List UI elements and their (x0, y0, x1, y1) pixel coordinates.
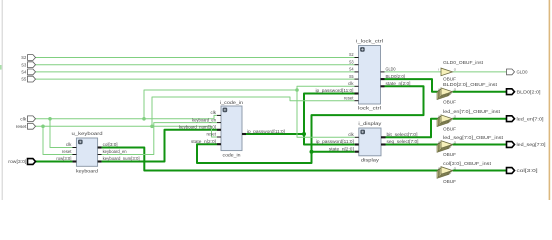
node reset junction B (150, 125, 154, 129)
svg-text:S5: S5 (21, 77, 26, 82)
pin lock_ctrl.S3 stub (355, 64, 359, 66)
svg-text:row[3:0]: row[3:0] (56, 156, 71, 161)
buffer col_OBUF_inst (437, 166, 457, 178)
pin label code_in.keyboard_num[3:0] (179, 125, 216, 130)
svg-text:S3: S3 (21, 62, 26, 67)
wire keyboard_en keyboard->code_in (102, 123, 217, 155)
svg-text:reset: reset (344, 95, 354, 100)
svg-text:S2: S2 (349, 52, 354, 57)
buffer GLD0 OBUF name (443, 76, 456, 81)
pin lock_ctrl.state_n stub (381, 85, 385, 87)
module i_display name (361, 158, 380, 163)
wire col[3:0] OBUF->port (453, 170, 507, 172)
svg-text:BLD0[2:0]: BLD0[2:0] (386, 74, 406, 79)
buffer led_seg OBUF name (443, 152, 456, 157)
wire S3 port->lock_ctrl (36, 64, 355, 66)
pin label code_in.reset (207, 132, 217, 137)
node ip_password junction (302, 132, 306, 136)
pin lock_ctrl.S2 stub (355, 57, 359, 59)
pin code_in.keyboard_num stub (217, 129, 221, 131)
pin label lock_ctrl.reset (344, 95, 354, 100)
svg-text:GLD0_OBUF_inst: GLD0_OBUF_inst (443, 60, 484, 65)
module u_keyboard title (72, 131, 103, 136)
wire keyboard_num[3:0] keyboard->code_in (102, 130, 217, 162)
wire led_en[7:0] display->OBUF (386, 119, 442, 138)
buffer GLD0_OBUF_inst (438, 68, 457, 76)
node clk junction C (295, 88, 299, 92)
pin label lock_ctrl.BLD0[2:0] (386, 74, 406, 79)
pin keyboard.keyboard_num[3:0] stub (98, 160, 102, 162)
pin code_in.keyboard_en stub (217, 122, 221, 124)
wire clk branch riser->lock_ctrl/display (144, 90, 297, 119)
svg-text:keyboard_num[3:0]: keyboard_num[3:0] (179, 125, 216, 130)
wire S2 port->lock_ctrl (36, 57, 355, 59)
module u_keyboard name (76, 168, 98, 173)
svg-text:col[3:0]: col[3:0] (103, 142, 118, 147)
buffer BLD0 OBUF name (443, 100, 456, 105)
svg-text:led_seg[7:0]_OBUF_inst: led_seg[7:0]_OBUF_inst (443, 135, 504, 140)
svg-text:ip_password[11:0]: ip_password[11:0] (247, 129, 285, 134)
wire state_n[2:0] lock_ctrl->display/code_in (197, 86, 424, 163)
pin label lock_ctrl.S3 (349, 59, 354, 64)
pin keyboard.col[3:0] stub (98, 146, 102, 148)
buffer led_seg_OBUF_inst (437, 140, 457, 152)
node reset junction A (41, 125, 45, 129)
port S3 (21, 62, 35, 68)
pin keyboard.keyboard_en stub (98, 154, 102, 156)
port S4 (21, 69, 35, 75)
sheet right border (548, 0, 550, 200)
svg-text:clk: clk (348, 81, 354, 86)
svg-text:u_keyboard: u_keyboard (72, 131, 103, 136)
svg-text:keyboard_en: keyboard_en (103, 149, 128, 154)
port GLD0 (507, 69, 528, 75)
buffer led_en_OBUF_inst label (443, 109, 501, 114)
wire ip_password[11:0] junction->lock_ctrl (304, 94, 355, 135)
pin keyboard.row[3:0] stub (72, 160, 76, 162)
pin lock_ctrl.GLD0 stub (381, 71, 385, 73)
pin lock_ctrl.ip_password stub (355, 92, 359, 94)
wire led_en[7:0] OBUF->port (453, 118, 507, 120)
pin display.seg_select stub (381, 143, 386, 145)
svg-text:col[3:0]: col[3:0] (517, 168, 538, 173)
wire clk ->display (297, 90, 355, 137)
wire ip_password[11:0] junction->display (304, 134, 355, 145)
module i_code_in name (223, 153, 241, 158)
module i_display body (359, 128, 381, 156)
svg-text:OBUF: OBUF (443, 152, 456, 157)
pin display.ip_password stub (355, 143, 359, 145)
wire state_n[2:0] branch->display (312, 151, 355, 153)
pin lock_ctrl.BLD0 stub (381, 78, 385, 80)
pin label lock_ctrl.state_n[2:0] (386, 81, 411, 86)
wire clk main (36, 115, 218, 118)
svg-text:reset: reset (16, 124, 27, 129)
buffer BLD0_OBUF_inst (437, 88, 457, 100)
svg-text:lock_ctrl: lock_ctrl (358, 106, 381, 111)
port reset (16, 123, 36, 129)
pin code_in.state_n stub (217, 143, 221, 145)
port row[3:0] (8, 159, 35, 165)
svg-text:i_lock_ctrl: i_lock_ctrl (356, 39, 383, 44)
module u_keyboard body (76, 138, 97, 166)
wire BLD0[2:0] lock_ctrl->OBUF (385, 79, 442, 92)
svg-text:clk: clk (20, 116, 27, 121)
sheet left border (1, 0, 3, 200)
svg-text:i_code_in: i_code_in (220, 100, 243, 105)
svg-text:ip_password[11:0]: ip_password[11:0] (316, 88, 354, 93)
pin lock_ctrl.S4 stub (355, 71, 359, 73)
pin label lock_ctrl.ip_password[11:0] (316, 88, 354, 93)
pin label display.seg_select[7:0] (387, 139, 419, 144)
pin label keyboard.clk (66, 142, 72, 147)
wire ip_password[11:0] code_in->junction (246, 133, 304, 135)
wire clk branch->keyboard (50, 119, 72, 148)
wire BLD0[2:0] OBUF->port (453, 91, 507, 93)
svg-text:clk: clk (348, 132, 354, 137)
port S5 (21, 76, 35, 82)
pin label display.state_n[2:0] (329, 146, 354, 151)
wire led_seg[7:0] OBUF->port (453, 144, 507, 146)
pin display.bit_select stub (381, 136, 386, 138)
buffer GLD0_OBUF_inst label (443, 60, 484, 65)
svg-text:S4: S4 (349, 67, 354, 72)
pin display.state_n stub (355, 151, 359, 153)
svg-text:reset: reset (62, 149, 72, 154)
pin label lock_ctrl.S2 (349, 52, 354, 57)
svg-text:led_en[7:0]_OBUF_inst: led_en[7:0]_OBUF_inst (443, 109, 501, 114)
buffer led_en_OBUF_inst (437, 115, 457, 127)
wire clk ->lock_ctrl (297, 86, 355, 90)
module i_code_in title (220, 100, 243, 105)
buffer col_OBUF_inst label (443, 161, 492, 166)
svg-text:OBUF: OBUF (443, 76, 456, 81)
svg-text:code_in: code_in (223, 153, 241, 158)
module i_code_in body (221, 106, 242, 151)
wire led_seg[7:0] display->OBUF (386, 144, 442, 146)
svg-text:bit_select[7:0]: bit_select[7:0] (387, 132, 418, 137)
pin lock_ctrl.clk stub (355, 85, 359, 87)
module i_display title (358, 121, 382, 126)
svg-text:led_en[7:0]: led_en[7:0] (517, 116, 544, 121)
port S2 (21, 55, 35, 61)
svg-text:state_n[2:0]: state_n[2:0] (191, 139, 216, 144)
pin code_in.ip_password stub (242, 133, 246, 135)
port BLD0[2:0] (507, 89, 541, 95)
pin label keyboard.keyboard_num[3:0] (103, 156, 140, 161)
wire GLD0 lock_ctrl->OBUF (385, 71, 442, 73)
svg-text:GLD0: GLD0 (386, 67, 396, 72)
buffer BLD0_OBUF_inst label (443, 82, 498, 87)
svg-text:BLD0[2:0]_OBUF_inst: BLD0[2:0]_OBUF_inst (443, 82, 498, 87)
pin code_in.reset stub (217, 136, 221, 138)
pin label lock_ctrl.S4 (349, 67, 354, 72)
pin keyboard.clk stub (72, 147, 76, 149)
svg-text:keyboard_num[3:0]: keyboard_num[3:0] (103, 156, 140, 161)
port led_seg[7:0] (507, 142, 546, 148)
svg-text:seg_select[7:0]: seg_select[7:0] (387, 139, 419, 144)
svg-text:OBUF: OBUF (443, 126, 456, 131)
svg-text:i_display: i_display (358, 121, 382, 126)
node clk junction A (48, 117, 52, 121)
svg-text:col[3:0]_OBUF_inst: col[3:0]_OBUF_inst (443, 161, 492, 166)
pin label code_in.keyboard_en (192, 117, 217, 122)
pin label display.bit_select[7:0] (387, 132, 418, 137)
pin label lock_ctrl.GLD0 (386, 67, 396, 72)
svg-text:S3: S3 (349, 59, 354, 64)
pin label keyboard.row[3:0] (56, 156, 71, 161)
svg-text:clk: clk (211, 110, 217, 115)
svg-text:BLD0[2:0]: BLD0[2:0] (517, 89, 541, 94)
wire row[3:0] port->keyboard (36, 161, 73, 163)
pin label lock_ctrl.S5 (349, 74, 354, 79)
wire reset branch->keyboard (43, 126, 72, 154)
pin label keyboard.keyboard_en (103, 149, 128, 154)
port clk (20, 116, 35, 122)
svg-text:keyboard_en: keyboard_en (192, 117, 217, 122)
pin label lock_ctrl.clk (348, 81, 354, 86)
node clk junction B (142, 117, 146, 121)
pin lock_ctrl.S5 stub (355, 78, 359, 80)
pin label code_in.clk (211, 110, 217, 115)
module i_lock_ctrl title (356, 39, 383, 44)
svg-text:S2: S2 (21, 55, 26, 60)
wire reset main (36, 126, 218, 137)
wire S5 port->lock_ctrl (36, 78, 355, 80)
pin lock_ctrl.reset stub (355, 100, 359, 102)
wire col[3:0] keyboard->OBUF (102, 148, 441, 171)
svg-text:GLD0: GLD0 (517, 70, 528, 75)
svg-text:state_n[2:0]: state_n[2:0] (329, 146, 354, 151)
svg-text:S4: S4 (21, 70, 26, 75)
svg-text:OBUF: OBUF (443, 100, 456, 105)
wire GLD0 OBUF->port (453, 71, 507, 73)
pin code_in.clk stub (217, 114, 221, 116)
svg-text:ip_password[11:0]: ip_password[11:0] (316, 139, 354, 144)
buffer col OBUF name (443, 179, 456, 184)
svg-text:clk: clk (66, 142, 72, 147)
node state_n junction (310, 150, 314, 154)
pin label display.clk (348, 132, 354, 137)
pin label keyboard.col[3:0] (103, 142, 118, 147)
svg-text:display: display (361, 158, 380, 163)
svg-text:OBUF: OBUF (443, 179, 456, 184)
pin label code_in.state_n[2:0] (191, 139, 216, 144)
module i_lock_ctrl name (358, 106, 381, 111)
wire S4 port->lock_ctrl (36, 71, 355, 73)
pin keyboard.reset stub (72, 154, 76, 156)
pin label display.ip_password[11:0] (316, 139, 354, 144)
buffer led_en OBUF name (443, 126, 456, 131)
pin label code_in.ip_password[11:0] (247, 129, 285, 134)
svg-text:keyboard: keyboard (76, 168, 98, 173)
pin label keyboard.reset (62, 149, 72, 154)
module i_lock_ctrl body (359, 46, 381, 105)
pin display.clk stub (355, 136, 359, 138)
edge wire fragment (0, 65, 2, 70)
svg-text:row[3:0]: row[3:0] (8, 159, 26, 164)
buffer led_seg_OBUF_inst label (443, 135, 504, 140)
svg-text:state_n[2:0]: state_n[2:0] (386, 81, 411, 86)
svg-text:reset: reset (207, 132, 217, 137)
svg-text:S5: S5 (349, 74, 354, 79)
svg-text:led_seg[7:0]: led_seg[7:0] (517, 142, 546, 147)
port led_en[7:0] (507, 116, 544, 122)
port col[3:0] (507, 168, 538, 174)
wire reset branch->lock_ctrl (152, 97, 355, 126)
